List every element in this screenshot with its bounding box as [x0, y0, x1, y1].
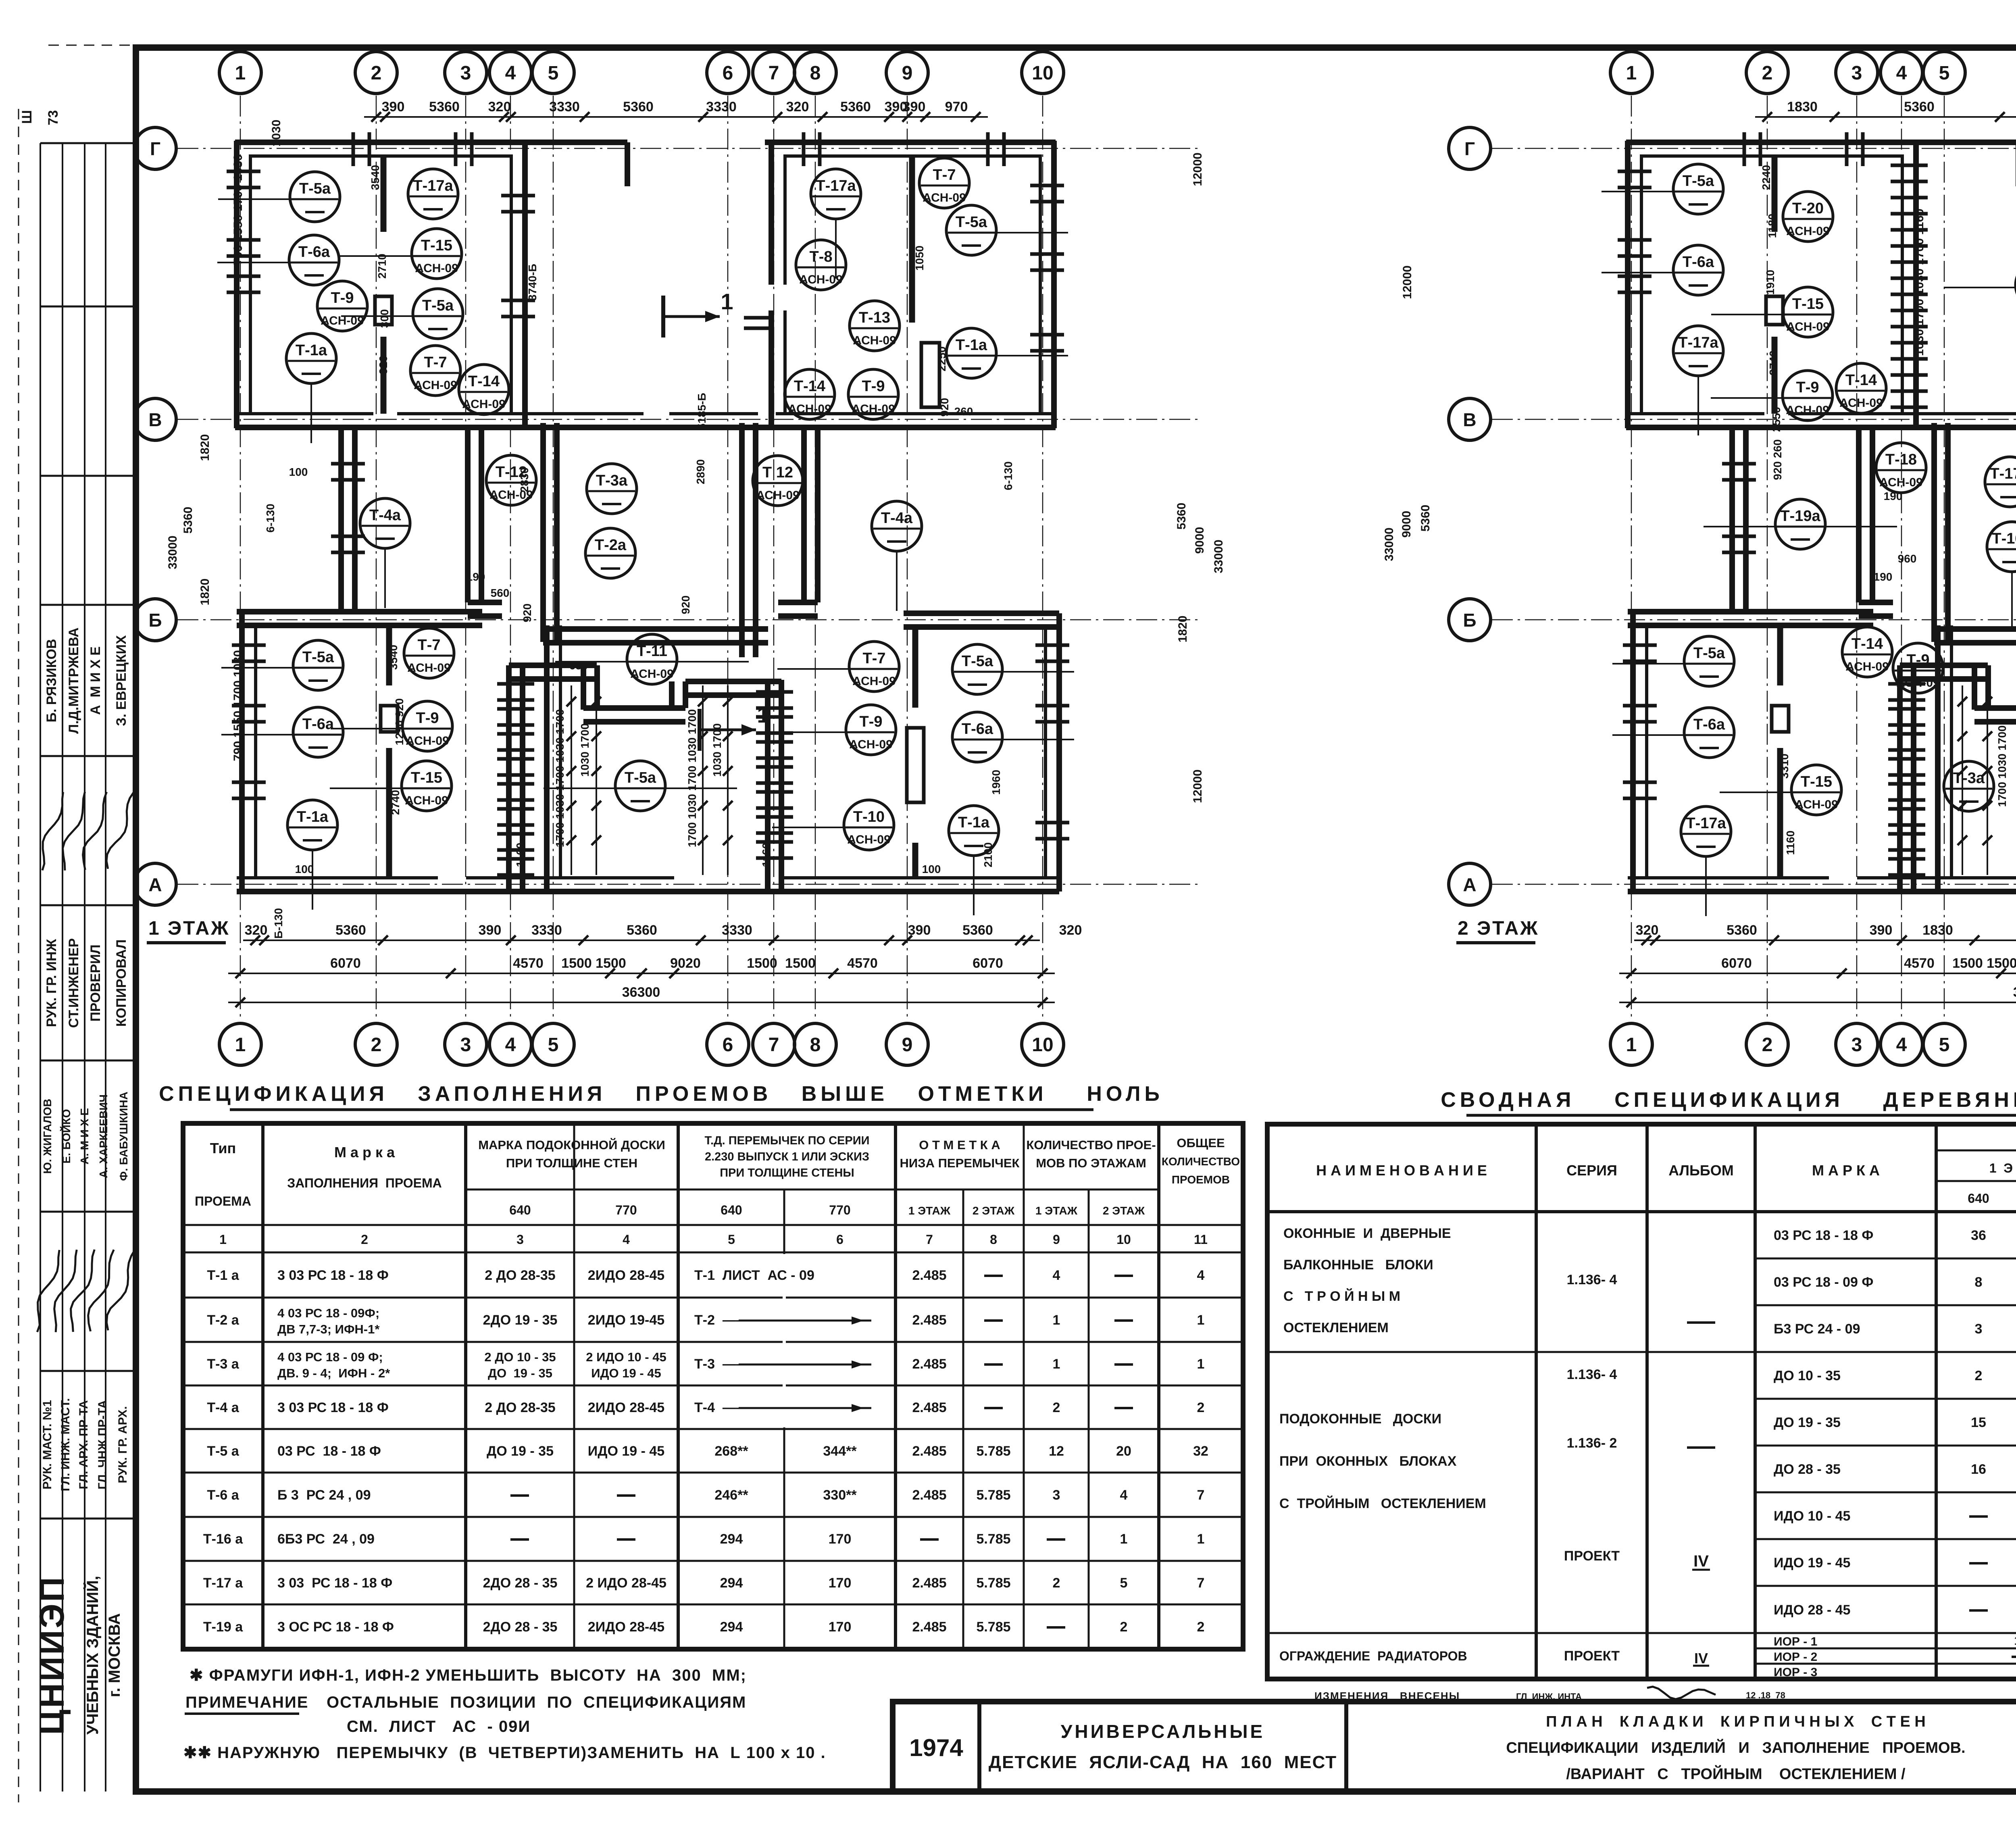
grid column circle 1 bottom	[1610, 1023, 1652, 1065]
svg-text:1.136- 4: 1.136- 4	[1567, 1272, 1617, 1287]
svg-text:АСН-09: АСН-09	[853, 334, 896, 347]
svg-text:8: 8	[810, 62, 821, 84]
svg-text:390: 390	[908, 923, 931, 938]
svg-text:390: 390	[903, 99, 926, 115]
svg-text:320: 320	[1059, 923, 1082, 938]
svg-text:ГЛ. ЧНЖ.ПР-ТА: ГЛ. ЧНЖ.ПР-ТА	[96, 1400, 109, 1489]
veranda interior dim lines	[571, 685, 572, 875]
svg-text:2: 2	[1120, 1619, 1128, 1635]
svg-text:Т-14: Т-14	[1851, 635, 1883, 652]
bottom wall	[1628, 889, 2016, 894]
svg-text:Н А И М Е Н О В А Н И Е: Н А И М Е Н О В А Н И Е	[1316, 1162, 1487, 1179]
svg-text:3 03 РС 18 - 18 Ф: 3 03 РС 18 - 18 Ф	[277, 1575, 392, 1591]
svg-text:1: 1	[721, 289, 733, 314]
svg-text:ЗАПОЛНЕНИЯ ПРОЕМА: ЗАПОЛНЕНИЯ ПРОЕМА	[287, 1176, 442, 1190]
partition LL	[386, 625, 392, 685]
svg-text:АСН-09: АСН-09	[407, 661, 451, 675]
svg-text:УНИВЕРСАЛЬНЫЕ: УНИВЕРСАЛЬНЫЕ	[1061, 1721, 1265, 1742]
svg-text:Е. БОЙКО: Е. БОЙКО	[60, 1109, 73, 1163]
svg-text:2 ЭТАЖ: 2 ЭТАЖ	[1458, 918, 1539, 939]
svg-text:Т-1 а: Т-1 а	[207, 1268, 239, 1283]
label circle Т-7	[410, 346, 460, 396]
svg-text:П Л А Н К Л А Д К И К И: П Л А Н К Л А Д К И К И Р П И Ч Н Ы Х С …	[1546, 1713, 1926, 1730]
svg-text:Т-5а: Т-5а	[302, 649, 334, 666]
svg-text:2ДО 28 - 35: 2ДО 28 - 35	[483, 1619, 558, 1635]
svg-text:320: 320	[1636, 923, 1659, 938]
svg-text:1500: 1500	[561, 956, 592, 971]
svg-text:2710: 2710	[376, 254, 388, 279]
svg-text:Т-5а: Т-5а	[625, 769, 656, 786]
svg-text:1 ЭТАЖ: 1 ЭТАЖ	[148, 918, 230, 939]
svg-text:03 РС 18 - 09 Ф: 03 РС 18 - 09 Ф	[1774, 1275, 1873, 1290]
lower-right block walls	[1056, 613, 1062, 892]
svg-text:АСН-09: АСН-09	[799, 273, 843, 286]
label circle Т-17а	[1705, 856, 1707, 916]
svg-text:2 ИДО 10 - 45: 2 ИДО 10 - 45	[586, 1350, 666, 1364]
svg-text:9: 9	[902, 62, 913, 84]
svg-text:770: 770	[829, 1203, 850, 1217]
svg-text:2: 2	[1197, 1400, 1205, 1415]
grid column circle 1 bottom	[219, 1023, 261, 1065]
svg-text:920: 920	[521, 604, 533, 623]
svg-text:1: 1	[1053, 1356, 1060, 1372]
svg-text:6Б3 РС 24 , 09: 6Б3 РС 24 , 09	[277, 1531, 375, 1547]
svg-text:ИДО 19 - 45: ИДО 19 - 45	[1774, 1555, 1850, 1571]
dimension line	[1755, 116, 2016, 118]
svg-text:АСН-09: АСН-09	[406, 734, 449, 748]
svg-text:920: 920	[679, 596, 692, 615]
svg-text:ОБЩЕЕ: ОБЩЕЕ	[1177, 1136, 1225, 1150]
label circle Т-9	[848, 369, 898, 419]
grid row circle Б	[134, 599, 176, 641]
label circle Т-12	[486, 455, 536, 505]
svg-text:/ВАРИАНТ С ТРОЙНЫМ ОСТЕ: /ВАРИАНТ С ТРОЙНЫМ ОСТЕКЛЕНИЕМ /	[1566, 1764, 1906, 1783]
svg-text:Т-5а: Т-5а	[1693, 645, 1725, 662]
UL right wall	[522, 141, 528, 428]
svg-text:170: 170	[829, 1531, 852, 1547]
label circle Т-8	[796, 240, 846, 290]
svg-text:2.485: 2.485	[912, 1444, 946, 1459]
svg-text:970: 970	[945, 99, 968, 115]
label circle Т-3а	[1944, 761, 1994, 811]
svg-text:Т-9: Т-9	[331, 290, 354, 306]
svg-text:960: 960	[1898, 552, 1917, 565]
dimension line	[243, 939, 1040, 941]
svg-text:СПЕЦИФИКАЦИЯ ЗАПОЛНЕНИЯ ПР: СПЕЦИФИКАЦИЯ ЗАПОЛНЕНИЯ ПРОЕМОВ ВЫШЕ ОТМ…	[159, 1082, 1164, 1106]
label circle Т-6а	[1001, 739, 1074, 740]
svg-text:73: 73	[46, 110, 61, 125]
svg-text:СВОДНАЯ СПЕЦИФИКАЦИЯ ДЕР: СВОДНАЯ СПЕЦИФИКАЦИЯ ДЕРЕВЯННЫХ ИЗДЕЛИЙ	[1441, 1088, 2016, 1112]
svg-text:СЕРИЯ: СЕРИЯ	[1566, 1162, 1617, 1179]
svg-text:5.785: 5.785	[976, 1619, 1010, 1635]
label circle Т-5а	[341, 315, 414, 317]
svg-text:6070: 6070	[973, 956, 1003, 971]
svg-text:100: 100	[922, 863, 941, 875]
svg-text:190: 190	[1874, 571, 1893, 583]
grid column circle 2 bottom	[1746, 1023, 1788, 1065]
svg-text:2550: 2550	[1770, 407, 1783, 432]
svg-text:2: 2	[1975, 1368, 1983, 1383]
svg-text:1: 1	[1053, 1312, 1060, 1328]
svg-text:2.485: 2.485	[912, 1268, 946, 1283]
svg-text:300: 300	[378, 309, 391, 328]
label circle Т-5а	[995, 232, 1068, 233]
interior partition UL	[381, 158, 387, 232]
svg-text:4: 4	[1120, 1487, 1128, 1503]
svg-text:4: 4	[623, 1232, 630, 1247]
svg-text:Т-20: Т-20	[1792, 200, 1824, 217]
svg-text:1830: 1830	[1922, 923, 1953, 938]
svg-text:5: 5	[1939, 1034, 1950, 1056]
svg-text:Т.Д. ПЕРЕМЫЧЕК ПО СЕРИИ: Т.Д. ПЕРЕМЫЧЕК ПО СЕРИИ	[705, 1134, 870, 1147]
svg-text:Т-2 а: Т-2 а	[207, 1312, 239, 1328]
svg-text:АСН-09: АСН-09	[788, 402, 831, 416]
svg-text:5: 5	[728, 1232, 735, 1247]
label circle Т-16а	[2011, 572, 2013, 631]
svg-text:Т-8: Т-8	[810, 248, 833, 265]
svg-text:9: 9	[902, 1034, 913, 1056]
svg-text:Л.Д.МИТРЖЕВА: Л.Д.МИТРЖЕВА	[66, 627, 81, 734]
label circle Т-15	[330, 787, 403, 789]
grid column circle 3 top	[1836, 52, 1878, 94]
svg-text:3 ОС РС 18 - 18 Ф: 3 ОС РС 18 - 18 Ф	[277, 1619, 394, 1635]
svg-text:Т-3 а: Т-3 а	[207, 1356, 239, 1372]
svg-text:В: В	[148, 409, 162, 430]
svg-text:ОГРАЖДЕНИЕ РАДИАТОРОВ: ОГРАЖДЕНИЕ РАДИАТОРОВ	[1279, 1649, 1467, 1663]
svg-text:1160: 1160	[1784, 831, 1797, 855]
svg-text:ПРИ ТОЛЩИНЕ СТЕН: ПРИ ТОЛЩИНЕ СТЕН	[506, 1156, 637, 1170]
svg-text:ПРИ ОКОННЫХ БЛОКАХ: ПРИ ОКОННЫХ БЛОКАХ	[1279, 1454, 1457, 1469]
label circle Т-17а	[1697, 376, 1699, 435]
svg-text:320: 320	[786, 99, 809, 115]
svg-text:В: В	[1463, 409, 1476, 430]
svg-text:5360: 5360	[962, 923, 993, 938]
svg-text:1030: 1030	[270, 120, 283, 147]
svg-text:Т-17а: Т-17а	[1678, 334, 1718, 351]
svg-text:РУК. ГР. АРХ.: РУК. ГР. АРХ.	[116, 1406, 129, 1483]
svg-text:1: 1	[235, 1034, 246, 1056]
grid row circle А	[1449, 863, 1491, 905]
grid row circle В	[134, 398, 176, 440]
svg-text:3330: 3330	[549, 99, 580, 115]
svg-text:ЦНИИЭП: ЦНИИЭП	[33, 1575, 71, 1735]
dimension line	[1634, 939, 2016, 941]
svg-text:1500: 1500	[1952, 956, 1983, 971]
grid column circle 10 bottom	[1022, 1023, 1064, 1065]
svg-text:32: 32	[1193, 1444, 1208, 1459]
svg-text:5360: 5360	[429, 99, 460, 115]
svg-text:15: 15	[1971, 1415, 1986, 1430]
signatures	[33, 792, 70, 871]
svg-text:Т-16 а: Т-16 а	[203, 1531, 243, 1547]
B-row wall right block	[904, 610, 1059, 616]
label circle Т-5а	[221, 667, 295, 669]
label circle Т-20	[1783, 192, 1833, 242]
B-row wall left block	[237, 609, 482, 615]
svg-text:КОЛИЧЕСТВО: КОЛИЧЕСТВО	[1162, 1155, 1240, 1168]
svg-text:СПЕЦИФИКАЦИИ ИЗДЕЛИЙ И З: СПЕЦИФИКАЦИИ ИЗДЕЛИЙ И ЗАПОЛНЕНИЕ ПРОЕМО…	[1506, 1738, 1965, 1756]
svg-text:Б: Б	[148, 610, 162, 631]
svg-text:1: 1	[235, 62, 246, 84]
svg-text:390: 390	[382, 99, 405, 115]
veranda ticked wall (2nd floor)	[1891, 164, 1928, 167]
svg-text:5360: 5360	[181, 507, 195, 534]
label circle Т-4а	[384, 548, 386, 608]
svg-text:920: 920	[377, 356, 389, 375]
svg-text:2100: 2100	[982, 842, 994, 867]
svg-text:ПРИМЕЧАНИЕ: ПРИМЕЧАНИЕ	[185, 1694, 309, 1711]
grid column circle 3 bottom	[445, 1023, 487, 1065]
svg-text:ПРОЕКТ: ПРОЕКТ	[1564, 1548, 1620, 1564]
svg-text:5360: 5360	[627, 923, 657, 938]
section mark lower	[698, 709, 702, 751]
label circle Т-17а	[835, 219, 837, 279]
label circle Т-1а	[973, 856, 975, 915]
svg-text:2ДО 28 - 35: 2ДО 28 - 35	[483, 1575, 558, 1591]
label circle Т-3а	[587, 464, 637, 514]
svg-text:Т-1 ЛИСТ АС - 09: Т-1 ЛИСТ АС - 09	[694, 1268, 814, 1283]
svg-text:650: 650	[569, 659, 588, 672]
label circle Т-5а	[1001, 671, 1074, 673]
svg-text:Т-9: Т-9	[1907, 652, 1930, 669]
svg-text:А: А	[148, 874, 162, 895]
svg-text:1820: 1820	[198, 434, 212, 461]
svg-text:ИОР - 2: ИОР - 2	[1774, 1650, 1817, 1664]
svg-text:2: 2	[1053, 1400, 1060, 1415]
label circle Т-19а	[1704, 526, 1777, 527]
svg-text:7: 7	[1197, 1575, 1205, 1591]
grid column circle 5 top	[1923, 52, 1965, 94]
svg-text:Т-9: Т-9	[1796, 379, 1819, 396]
svg-text:АСН-09: АСН-09	[1879, 476, 1923, 489]
svg-text:20: 20	[1116, 1444, 1131, 1459]
svg-text:170: 170	[829, 1619, 852, 1635]
top wall windows	[802, 132, 806, 166]
svg-text:294: 294	[720, 1531, 743, 1547]
svg-text:640: 640	[509, 1203, 531, 1217]
svg-text:4: 4	[505, 1034, 516, 1056]
svg-text:АЛЬБОМ: АЛЬБОМ	[1668, 1162, 1733, 1179]
svg-text:246**: 246**	[714, 1487, 748, 1503]
svg-text:1.136- 4: 1.136- 4	[1567, 1367, 1617, 1382]
grid row circle Г	[134, 127, 176, 169]
svg-text:АСН-09: АСН-09	[415, 262, 458, 275]
grid column circle 9 bottom	[886, 1023, 928, 1065]
label circle Т-15	[1720, 792, 1793, 793]
svg-text:790 1550 1700 1030: 790 1550 1700 1030	[231, 154, 245, 265]
svg-text:1820: 1820	[198, 579, 212, 606]
svg-text:5360: 5360	[1727, 923, 1757, 938]
svg-text:УЧЕБНЫХ ЗДАНИЙ,: УЧЕБНЫХ ЗДАНИЙ,	[83, 1576, 102, 1735]
grid row circle В	[1449, 398, 1491, 440]
svg-text:Т-7: Т-7	[933, 167, 956, 183]
label circle Т-7	[919, 158, 969, 208]
grid column circle 6 bottom	[707, 1023, 749, 1065]
svg-text:1160: 1160	[760, 843, 773, 867]
svg-text:ИДО 10 - 45: ИДО 10 - 45	[1774, 1508, 1850, 1524]
grid row circle Г	[1449, 127, 1491, 169]
svg-text:А М И Х Е: А М И Х Е	[88, 646, 103, 715]
grid axis lines	[1631, 96, 1632, 1021]
svg-text:4570: 4570	[847, 956, 878, 971]
svg-text:АСН-09: АСН-09	[756, 489, 800, 502]
veranda interior dim lines	[1962, 685, 1963, 875]
label circle Т-1а	[995, 355, 1068, 356]
svg-text:Б-130: Б-130	[272, 908, 285, 939]
label circle Т-2а	[585, 528, 635, 578]
svg-text:Т-19 а: Т-19 а	[203, 1619, 243, 1635]
svg-text:ИДО 28 - 45: ИДО 28 - 45	[1774, 1602, 1850, 1618]
lower middle veranda	[506, 665, 512, 892]
grid column circle 8 top	[794, 52, 836, 94]
svg-text:Т-5а: Т-5а	[299, 180, 331, 197]
svg-text:Т-6а: Т-6а	[302, 716, 334, 733]
svg-text:10: 10	[1032, 1034, 1053, 1056]
svg-text:2: 2	[371, 62, 382, 84]
stairwell veranda top walls	[1900, 662, 1988, 668]
label circle Т-18	[1876, 443, 1926, 493]
svg-text:РУК. ГР. ИНЖ: РУК. ГР. ИНЖ	[44, 939, 59, 1027]
svg-text:Т-3а: Т-3а	[1953, 770, 1985, 787]
UL windows left wall	[227, 170, 260, 173]
svg-text:33000: 33000	[1212, 540, 1225, 573]
svg-text:1974: 1974	[909, 1734, 963, 1761]
grid column circle 2 bottom	[355, 1023, 397, 1065]
svg-text:9020: 9020	[670, 956, 701, 971]
lower middle veranda	[1897, 665, 1903, 892]
svg-text:2: 2	[1762, 62, 1773, 84]
svg-text:10: 10	[2014, 1634, 2016, 1648]
svg-text:Т-6а: Т-6а	[962, 721, 993, 737]
label circle Т-9	[1711, 397, 1784, 399]
grid column circle 8 bottom	[794, 1023, 836, 1065]
corridor wall row V	[235, 412, 373, 415]
svg-text:2 ЭТАЖ: 2 ЭТАЖ	[1103, 1204, 1145, 1217]
svg-text:2890: 2890	[694, 459, 707, 484]
svg-text:А. М И Х Е: А. М И Х Е	[78, 1108, 91, 1164]
svg-text:Т-5 а: Т-5 а	[207, 1444, 239, 1459]
label circle Т-6а	[1602, 272, 1675, 273]
svg-text:7: 7	[768, 1034, 779, 1056]
svg-text:16: 16	[1971, 1462, 1986, 1477]
svg-text:МАРКА ПОДОКОННОЙ ДОСКИ: МАРКА ПОДОКОННОЙ ДОСКИ	[478, 1137, 665, 1152]
svg-text:БАЛКОННЫЕ БЛОКИ: БАЛКОННЫЕ БЛОКИ	[1283, 1257, 1433, 1273]
svg-text:3540: 3540	[369, 165, 381, 190]
svg-text:Т-1а: Т-1а	[296, 342, 327, 359]
svg-text:М А Р К А: М А Р К А	[1812, 1162, 1880, 1179]
svg-text:Т-14: Т-14	[1845, 372, 1877, 389]
svg-text:1030 1700: 1030 1700	[579, 723, 591, 777]
svg-text:ПРОЕКТ: ПРОЕКТ	[1564, 1648, 1620, 1664]
svg-text:5: 5	[548, 1034, 559, 1056]
grid column circle 4 bottom	[489, 1023, 531, 1065]
interior partition UR	[909, 158, 915, 323]
svg-text:190: 190	[1884, 490, 1903, 502]
svg-text:Т-1а: Т-1а	[958, 814, 990, 831]
label circle Т-17а	[1985, 457, 2016, 507]
lower-left block walls	[1630, 612, 1636, 892]
svg-text:Т-6а: Т-6а	[1683, 254, 1714, 271]
dimension line	[228, 1002, 1055, 1003]
svg-text:АСН-09: АСН-09	[414, 379, 457, 392]
svg-text:Т-13: Т-13	[859, 309, 890, 326]
label circle Т-1а	[312, 850, 313, 910]
svg-text:8: 8	[1975, 1275, 1983, 1290]
svg-text:1500: 1500	[596, 956, 626, 971]
svg-text:1500: 1500	[1987, 956, 2016, 971]
svg-text:560: 560	[491, 587, 510, 599]
svg-text:4 03 РС 18 - 09Ф;: 4 03 РС 18 - 09Ф;	[277, 1306, 379, 1320]
svg-text:ИОР - 3: ИОР - 3	[1774, 1666, 1817, 1679]
svg-text:Т-7: Т-7	[863, 650, 886, 667]
svg-text:А. ХАРКЕЕВИЧ: А. ХАРКЕЕВИЧ	[97, 1094, 110, 1178]
label circle Т-11	[555, 661, 629, 662]
svg-text:Т-17а: Т-17а	[1990, 465, 2016, 482]
label circle Т-9	[774, 731, 848, 733]
svg-text:1: 1	[219, 1232, 227, 1247]
svg-text:1910: 1910	[1764, 270, 1776, 295]
svg-text:390: 390	[1870, 923, 1893, 938]
svg-text:2: 2	[371, 1034, 382, 1056]
svg-text:2240: 2240	[1760, 165, 1772, 190]
label circle Т-7	[777, 668, 851, 670]
section mark upper	[661, 296, 665, 337]
svg-text:3: 3	[516, 1232, 524, 1247]
svg-text:2 ДО 28-35: 2 ДО 28-35	[485, 1400, 555, 1415]
svg-text:1: 1	[1626, 62, 1637, 84]
svg-text:9: 9	[1053, 1232, 1060, 1247]
svg-text:Т-6а: Т-6а	[298, 244, 330, 260]
svg-text:5360: 5360	[1419, 505, 1432, 532]
svg-text:11: 11	[1194, 1232, 1208, 1247]
svg-text:294: 294	[720, 1619, 743, 1635]
svg-text:ДО 10 - 35: ДО 10 - 35	[1774, 1368, 1841, 1383]
svg-text:920 260: 920 260	[1771, 439, 1784, 480]
svg-text:770: 770	[615, 1203, 637, 1217]
svg-text:Т-2а: Т-2а	[595, 537, 627, 554]
svg-text:2ДО 19 - 35: 2ДО 19 - 35	[483, 1312, 558, 1328]
svg-text:МОВ ПО ЭТАЖАМ: МОВ ПО ЭТАЖАМ	[1036, 1156, 1146, 1170]
svg-text:СТ.ИНЖЕНЕР: СТ.ИНЖЕНЕР	[66, 938, 81, 1028]
svg-text:12000: 12000	[1401, 265, 1414, 299]
middle band walls	[338, 428, 344, 612]
middle B-row corridor wall	[543, 626, 768, 632]
svg-text:АСН-09: АСН-09	[847, 833, 891, 846]
sidebar stamp column	[40, 143, 41, 1792]
middle band walls	[1729, 428, 1735, 612]
svg-text:1 Э Т А Ж: 1 Э Т А Ж	[1989, 1161, 2016, 1175]
svg-text:6: 6	[723, 1034, 733, 1056]
svg-text:АСН-09: АСН-09	[1845, 660, 1889, 673]
grid column circle 3 top	[445, 52, 487, 94]
label circle Т-6а	[217, 262, 291, 263]
svg-text:СМ. ЛИСТ АС - 09И: СМ. ЛИСТ АС - 09И	[347, 1718, 531, 1735]
svg-text:6-130: 6-130	[264, 504, 277, 533]
dimension line	[1619, 973, 2016, 974]
svg-text:330**: 330**	[823, 1487, 857, 1503]
svg-text:12000: 12000	[1191, 769, 1204, 803]
svg-text:320: 320	[488, 99, 511, 115]
svg-text:12000: 12000	[1191, 152, 1204, 186]
svg-text:3: 3	[460, 1034, 471, 1056]
svg-text:6070: 6070	[1721, 956, 1752, 971]
dimension line	[364, 116, 988, 118]
svg-text:ДО 19 - 35: ДО 19 - 35	[488, 1366, 552, 1380]
exterior wall upper-left block	[235, 140, 527, 145]
svg-text:Т-9: Т-9	[860, 713, 883, 730]
svg-text:Т-16а: Т-16а	[1992, 530, 2016, 547]
svg-text:2: 2	[1197, 1619, 1205, 1635]
